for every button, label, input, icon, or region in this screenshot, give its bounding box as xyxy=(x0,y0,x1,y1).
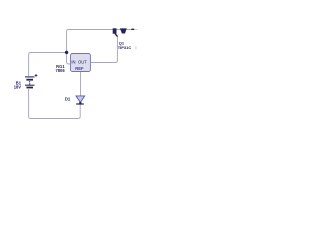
svg-text:7806: 7806 xyxy=(55,68,65,73)
svg-text:REF: REF xyxy=(75,66,84,71)
svg-text:D1: D1 xyxy=(65,97,71,102)
svg-text:OUT: OUT xyxy=(78,60,87,65)
svg-text:IN: IN xyxy=(71,60,75,65)
svg-text:18V: 18V xyxy=(14,85,22,90)
svg-text:TIP31C: TIP31C xyxy=(118,45,132,50)
